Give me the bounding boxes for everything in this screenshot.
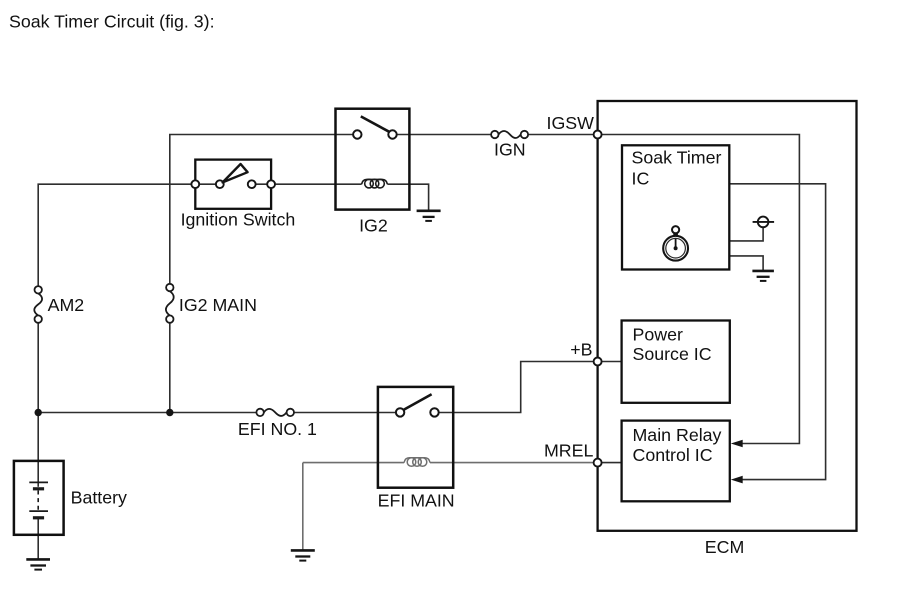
svg-text:Battery: Battery (71, 487, 127, 507)
wire: MREL gray run (ground stem to EFI MAIN coil) (303, 463, 404, 551)
svg-text:IGN: IGN (494, 140, 526, 160)
svg-text:MREL: MREL (544, 440, 594, 460)
svg-text:IG2: IG2 (359, 215, 388, 235)
svg-text:IGSW: IGSW (547, 113, 595, 133)
wire: EFI NO.1 fuse to EFI MAIN switch (290, 412, 400, 414)
ECM box (598, 101, 857, 531)
node +B (594, 358, 602, 366)
svg-text:Soak Timer: Soak Timer (632, 148, 722, 168)
svg-text:Source IC: Source IC (633, 344, 712, 364)
svg-text:Ignition Switch: Ignition Switch (181, 209, 296, 229)
fuse IGN (491, 131, 528, 138)
junction dot: bus at battery (35, 409, 42, 416)
box: Ignition Switch (195, 160, 271, 209)
wire: +B node into Power Source IC (598, 361, 622, 363)
wire: IGSW node to Main Relay Control IC (upper arrow run) (598, 135, 800, 444)
node MREL (594, 459, 602, 467)
wire: AM2 fuse bottom to bus (37, 319, 39, 412)
box: Main Relay Control IC (622, 421, 730, 502)
wire: EFI MAIN switch out, up to +B node (435, 362, 598, 413)
battery box (14, 461, 64, 535)
box: Power Source IC (622, 321, 730, 403)
svg-text:Main Relay: Main Relay (633, 425, 722, 445)
wire: AM2 fuse top up and over to Ignition Switch (38, 184, 195, 290)
wire: battery internal dashed link (37, 491, 39, 512)
svg-text:IC: IC (632, 169, 650, 189)
switch blade: EFI MAIN relay (404, 394, 432, 410)
switch lever (ignition switch key wedge) (223, 164, 248, 182)
wire: ignition switch interior left (195, 183, 220, 185)
wire: Soak Timer IC to terminal (729, 227, 763, 241)
battery plates (29, 482, 48, 517)
svg-text:Power: Power (633, 325, 683, 345)
svg-text:EFI NO. 1: EFI NO. 1 (238, 419, 317, 439)
svg-text:EFI MAIN: EFI MAIN (378, 491, 455, 511)
fuse EFI NO. 1 (256, 409, 294, 416)
wire: MREL gray run (coil to MREL node) (430, 462, 598, 464)
ground: IG2 relay coil (417, 211, 441, 221)
arrowhead: into Main Relay Control IC (from IGSW) (731, 440, 743, 448)
switch contacts: ignition switch (191, 180, 275, 188)
fuse IG2 MAIN (166, 284, 174, 323)
wire: IG2 MAIN fuse bottom to bus (169, 319, 171, 412)
ground: below EFI MAIN coil (291, 550, 315, 560)
wire: IG2 coil to ground drop (387, 184, 428, 211)
svg-text:Control IC: Control IC (633, 445, 713, 465)
relay IG2 box (336, 109, 410, 210)
relay EFI MAIN box (378, 387, 453, 488)
svg-text:ECM: ECM (705, 537, 745, 557)
svg-text:+B: +B (570, 340, 592, 360)
fuse AM2 (34, 286, 42, 323)
wire: Soak Timer IC to ground (729, 256, 763, 271)
terminal: soak timer test point (753, 217, 775, 228)
wire: battery bus left segment (38, 412, 260, 414)
wire: MREL node into Main Relay Control IC (598, 462, 622, 464)
inductor coil L2 (EFI MAIN relay) (404, 458, 430, 467)
wire: IGN fuse to IGSW node (524, 134, 597, 136)
switch contacts: IG2 relay (353, 130, 397, 138)
wire: IG2 MAIN fuse top to top bus corner to IG2 relay (170, 135, 336, 288)
wire: bus junction down into battery (37, 413, 39, 487)
ground: Soak Timer IC (752, 271, 774, 281)
ground: below battery (26, 559, 50, 569)
switch blade: IG2 relay (361, 116, 389, 131)
svg-text:IG2 MAIN: IG2 MAIN (179, 295, 257, 315)
wire: ignition switch interior right (252, 183, 271, 185)
inductor coil L1 (IG2 relay) (362, 179, 388, 188)
wire: IG2 relay switch left stub (336, 134, 358, 136)
wire: battery bottom plate to ground (37, 518, 39, 560)
arrowhead: into Main Relay Control IC (from Soak Timer) (731, 476, 743, 484)
junction dot: bus at IG2 MAIN (166, 409, 173, 416)
node IGSW (594, 131, 602, 139)
wire: Soak Timer IC output to Main Relay Control IC (lower arrow run) (729, 184, 825, 480)
svg-text:Soak Timer Circuit (fig. 3):: Soak Timer Circuit (fig. 3): (9, 12, 215, 32)
wire: IG2 relay to IGN fuse (393, 134, 495, 136)
switch contacts: EFI MAIN relay (396, 408, 439, 416)
icon: stopwatch (soak timer) (663, 226, 688, 261)
box: Soak Timer IC (622, 145, 729, 269)
svg-text:AM2: AM2 (48, 295, 85, 315)
wire: ignition switch to IG2 coil (271, 183, 362, 185)
